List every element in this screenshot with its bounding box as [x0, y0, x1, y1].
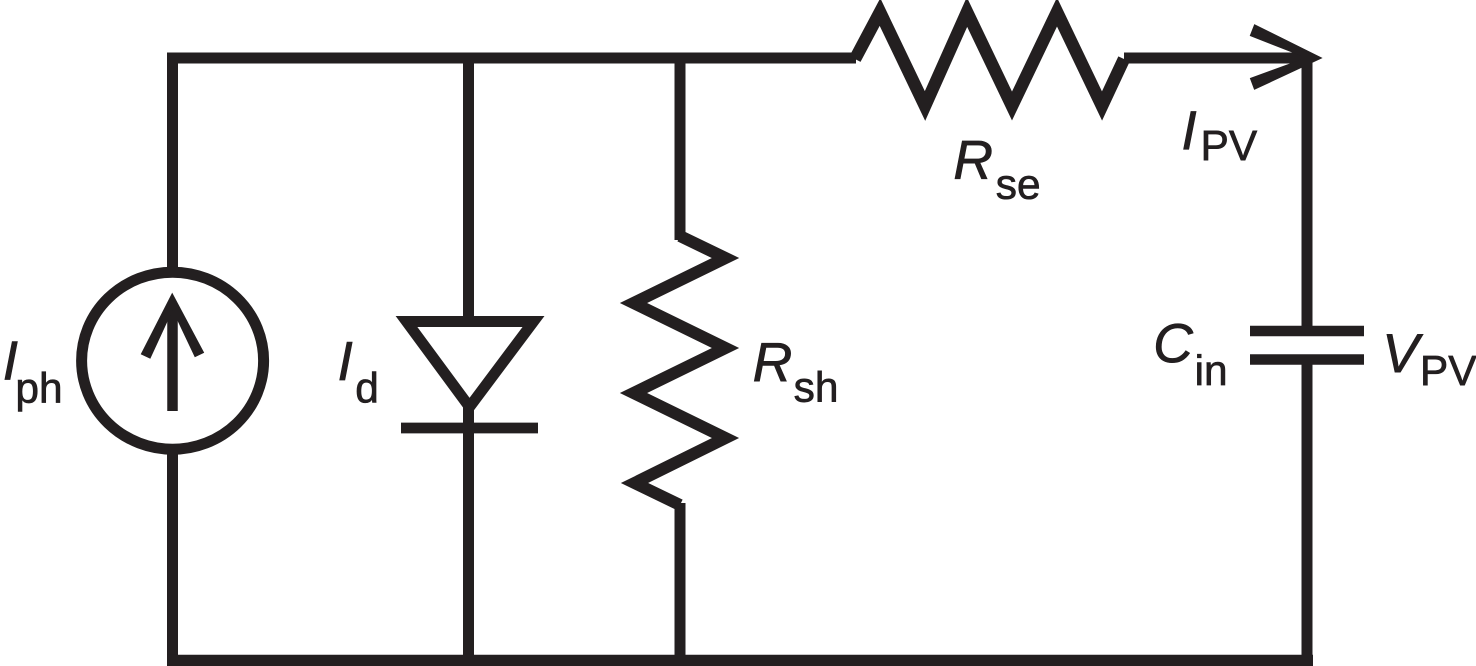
label Id main I: [340, 342, 352, 380]
label Rsh subscript sh: [795, 371, 836, 402]
wire top rail: [167, 53, 856, 64]
wire right branch bottom: [1302, 364, 1313, 666]
label VPV subscript PV: [1423, 356, 1476, 385]
wire diode branch bottom: [463, 405, 474, 660]
wire shunt branch bottom: [675, 503, 686, 660]
current source arrow shaft: [167, 306, 178, 411]
label Rse main R: [955, 141, 991, 179]
current source arrow head: [141, 293, 205, 359]
diode D cathode bar: [401, 423, 538, 434]
capacitor Cin bottom plate: [1250, 354, 1364, 365]
label Rse subscript se: [997, 176, 1039, 199]
arrow IPV head: [1250, 24, 1323, 90]
capacitor Cin top plate: [1250, 326, 1364, 337]
label Id subscript d: [357, 372, 376, 403]
label IPV subscript PV: [1204, 131, 1257, 160]
label Rsh main R: [754, 343, 790, 381]
label Iph main I: [5, 342, 17, 380]
wire arrow horizontal: [1124, 53, 1310, 64]
wire bottom rail: [167, 655, 1313, 666]
label Cin subscript in: [1197, 354, 1224, 385]
resistor Rsh zigzag: [634, 236, 726, 505]
wire shunt branch top: [675, 53, 686, 240]
diode D triangle: [407, 322, 534, 408]
resistor Rse zigzag: [855, 12, 1124, 106]
wire diode branch top: [463, 53, 474, 321]
current source Iph circle: [82, 272, 264, 449]
label Iph subscript ph: [18, 372, 60, 412]
label VPV main V: [1387, 334, 1423, 372]
wire left branch bottom: [167, 448, 178, 660]
label IPV main I: [1184, 111, 1196, 149]
label Cin main C: [1156, 324, 1193, 363]
wire right branch top: [1302, 53, 1313, 327]
wire left branch top: [167, 53, 178, 270]
